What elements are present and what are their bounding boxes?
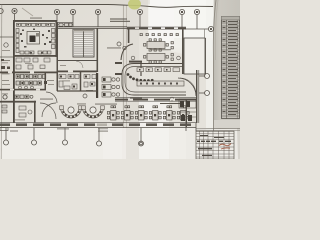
stairwell box: [73, 29, 94, 57]
fold crease lines: [123, 5, 125, 128]
bottom grid bubble 10: [139, 141, 144, 146]
window wall top right segments: [127, 27, 186, 29]
small bubble near stairs: [117, 42, 121, 46]
stair divider: [83, 29, 85, 57]
serving line rects: [137, 68, 180, 72]
bottom window wall: [0, 122, 196, 127]
stair dark landing: [74, 30, 93, 32]
left edge line: [0, 5, 3, 160]
WC dense block rows: [16, 75, 46, 86]
grid bubble axis 8: [137, 9, 142, 14]
main top wall double line: [57, 27, 127, 29]
curved sofa right: [83, 108, 104, 119]
room column circles: [131, 56, 135, 60]
grid bubble axis 1 (left edge, partial): [0, 8, 214, 95]
partition wall in hall: [140, 61, 142, 76]
grid bubble axis 2: [12, 8, 17, 13]
vertical wall x45: [45, 72, 47, 90]
rooms under corridor furniture: [59, 75, 96, 90]
upper dining room tables 2x2: [140, 34, 178, 64]
text marks row1: [2, 60, 32, 64]
highlight band left of page edge: [206, 0, 214, 131]
title text near axis 8: [110, 19, 130, 22]
red annotation: [219, 144, 231, 150]
small furniture vestibule: [19, 106, 26, 117]
right-side chairs: [171, 42, 173, 44]
grid bubble axis 5: [70, 9, 75, 14]
mid wall segment 2: [57, 71, 97, 73]
svg-text:12: 12: [195, 10, 199, 14]
banquet room right: [184, 38, 205, 74]
left room table 2: [3, 95, 7, 99]
bottom lighter band: [0, 128, 240, 159]
foyer text: [77, 103, 86, 106]
vestibule door arc 1: [40, 103, 56, 119]
grid bubble axis 6: [95, 9, 100, 14]
mid horizontal wall left y72: [0, 72, 57, 74]
right lower arc: [178, 78, 196, 96]
kitchen central island: [27, 32, 40, 45]
diagonal crease top-left: [22, 8, 33, 16]
kitchen perimeter equipment top row: [17, 23, 55, 26]
band above top line: [0, 0, 150, 5]
room row under kitchen: furniture: [16, 58, 50, 69]
room between kitchen and stair: [57, 24, 73, 26]
right gray strip: [213, 0, 240, 133]
vertical wall at x57: [57, 22, 59, 72]
left room text: [2, 49, 10, 52]
right wall lower double: [196, 70, 197, 123]
grid bubble row B right: [208, 26, 213, 31]
lower hall wall band: [115, 97, 196, 101]
left side rooms partitions: [0, 37, 13, 57]
small column circle: [123, 46, 126, 49]
left rooms small text: [2, 80, 54, 94]
fold bright band: [139, 100, 169, 159]
hall2 table rows: [102, 77, 120, 97]
fold shading dark band: [122, 5, 139, 159]
kitchen island dark range: [30, 36, 36, 43]
table T1: [147, 42, 165, 49]
wall stub left of loop 2: [115, 73, 122, 75]
corridor door arc: [46, 92, 57, 103]
page edge curve: [213, 0, 216, 131]
left room table 1: [4, 43, 8, 47]
counter inside loop bottom: [137, 81, 184, 86]
bottom grid bubble 7: [63, 140, 68, 145]
left edge room marks: [2, 105, 7, 113]
wall above stair: [57, 22, 73, 24]
svg-text:11: 11: [180, 10, 183, 14]
kitchen top wall: [13, 20, 57, 22]
kitchen bottom equipment row: [20, 51, 51, 54]
wall stub bottom left of titleblock: [185, 123, 187, 131]
bottom grid bubble 5: [32, 140, 37, 145]
right lower WC fixtures: [180, 101, 192, 121]
bar racetrack loop inner: [125, 67, 186, 93]
white zone top right: [148, 0, 213, 62]
kitchen bottom wall: [13, 55, 57, 57]
wall y101.5 left: [0, 101, 36, 103]
WC dark dots: [17, 76, 47, 85]
top border line: [0, 5, 213, 8]
left room circle: [3, 95, 7, 99]
WC circles: [19, 86, 22, 89]
vestibule text label: [40, 98, 53, 101]
corridor text: [107, 47, 121, 50]
grid bubble axis 11: [179, 9, 184, 14]
vertical wall x35 lower: [34, 101, 36, 123]
kitchen right equipment column: [52, 29, 56, 49]
wall stub left of loop 1: [115, 62, 122, 64]
highlighter blob: [128, 0, 141, 10]
wall under WC y89.5: [0, 89, 46, 91]
dining table dark dots: [112, 114, 184, 116]
kitchen right wall: [56, 20, 58, 57]
left outer wall: [13, 20, 15, 123]
vertical wall x97: [97, 28, 99, 72]
wall y91 center: [57, 90, 97, 92]
bar stools along curve: [127, 73, 154, 82]
serving line dots: [139, 69, 168, 71]
curved sofa left: [61, 108, 82, 119]
leader bubble right mid1: [205, 74, 210, 79]
vertical wall x57 lower: [57, 72, 59, 91]
room bottom hatch wall: [129, 61, 142, 63]
right wall x186 lower: [186, 99, 187, 127]
room center text: [150, 48, 171, 51]
chair row along top wall: [140, 34, 142, 36]
right wall upper: [182, 29, 184, 74]
leader bubble right mid2: [205, 91, 210, 96]
left column dark marks: [1, 59, 10, 69]
building corner stub bottom-left: [0, 128, 8, 131]
grid bubble axis 4: [54, 9, 59, 14]
foyer bubble: [83, 94, 87, 98]
corridor fixtures band: [15, 95, 29, 99]
text above kitchen wall: [30, 17, 42, 20]
entrance steps: [98, 129, 108, 132]
vestibule text: [15, 119, 25, 122]
dining table row (7 groups): [107, 106, 189, 120]
paper background: [0, 0, 240, 159]
kitchen equipment dots top: [18, 24, 49, 25]
banquet room right wall double: [205, 38, 207, 74]
vestibule door arc 2: [42, 103, 56, 117]
room dark dots: [60, 76, 93, 88]
corridor walls mid: [57, 60, 97, 62]
room text marks: [62, 81, 93, 91]
vignette darker top-left: [0, 0, 130, 110]
bottom right page (white): [186, 128, 238, 159]
bar racetrack loop outer: [122, 64, 186, 96]
table T2: [147, 54, 165, 61]
bottom grid bubble 9: [97, 141, 102, 146]
grid bubble axis 12: [194, 9, 199, 14]
gray strip bottom edge lines: [196, 128, 240, 130]
kitchen small marks: [20, 29, 51, 54]
hall text left: [95, 103, 117, 106]
hall #2 wall dark: [96, 73, 98, 98]
title block text marks: [197, 135, 231, 156]
dining room left wall: [128, 29, 130, 43]
kitchen left equipment column: [16, 29, 19, 53]
table text smudges: [223, 21, 239, 115]
bottom small text label: [57, 128, 69, 131]
bottom grid bubble 3: [4, 140, 9, 145]
stair treads: [74, 31, 93, 56]
dining hall text: [130, 98, 142, 99]
room left wall curve into loop: [121, 44, 133, 60]
